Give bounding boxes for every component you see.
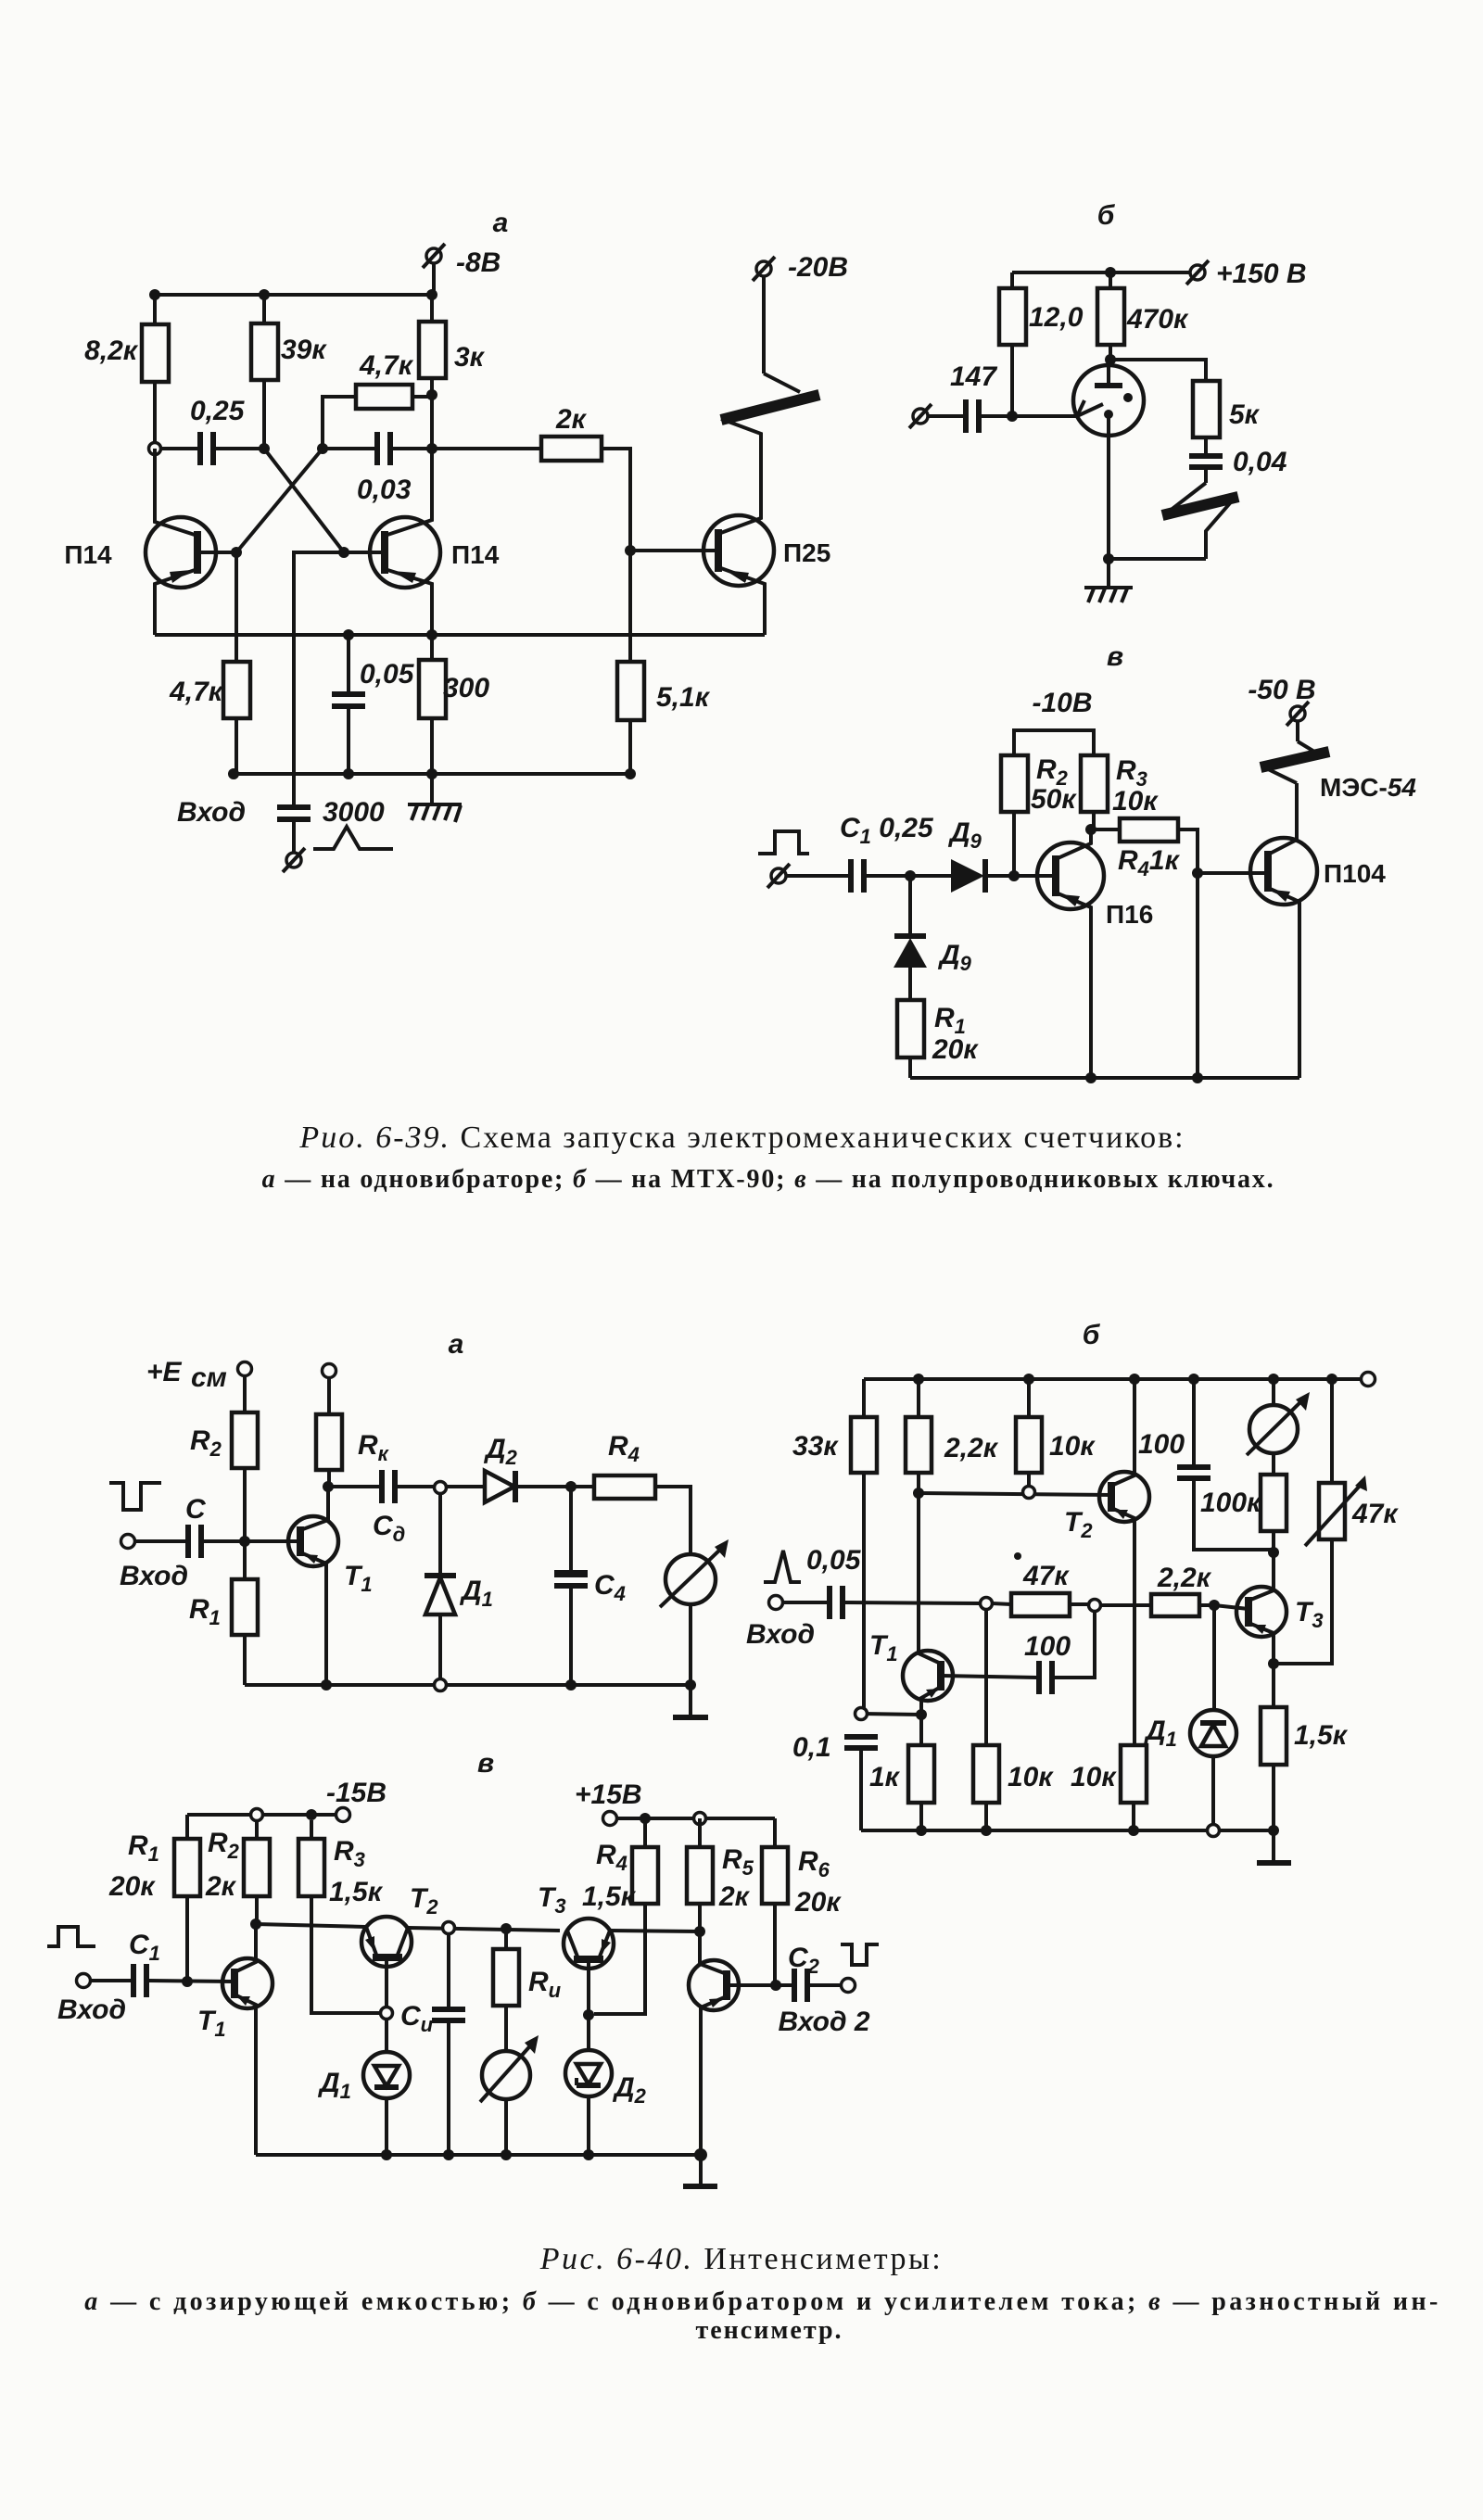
- svg-text:Т2: Т2: [410, 1883, 438, 1918]
- input terminal: [909, 404, 932, 428]
- counter bolt b: [1162, 469, 1238, 559]
- node open circle left: [149, 443, 161, 455]
- transistor P16: [1037, 829, 1153, 1078]
- svg-text:147: 147: [950, 361, 997, 392]
- svg-text:R1: R1: [934, 1003, 966, 1038]
- resistor Ri: [493, 1929, 562, 2051]
- capacitor 0,25: [190, 396, 264, 465]
- resistor 4,7k vertical: [169, 552, 250, 774]
- terminal +15V: [575, 1779, 642, 1826]
- wire base T2: [919, 1493, 1111, 1495]
- input terminal: [121, 1535, 187, 1549]
- svg-text:1,5к: 1,5к: [329, 1877, 384, 1907]
- transistor P104: [1250, 783, 1386, 1078]
- svg-text:R2: R2: [208, 1828, 240, 1863]
- junction node R5/output collector: [694, 1926, 705, 1937]
- node 2k base P25: [625, 545, 636, 556]
- junction dots rail b: [916, 1825, 927, 1836]
- junction node R2/T1 collector: [250, 1918, 261, 1930]
- svg-text:0,1: 0,1: [792, 1732, 831, 1763]
- ground v: [683, 2155, 717, 2186]
- svg-text:Т3: Т3: [538, 1882, 566, 1918]
- svg-text:4,7к: 4,7к: [169, 677, 224, 707]
- terminal -15V: [326, 1778, 387, 1822]
- resistor 2,2k horizontal: [1100, 1563, 1214, 1616]
- base wire T1 to cap 100: [941, 1676, 1037, 1678]
- svg-text:Рио. 6-39. Схема запуска элект: Рио. 6-39. Схема запуска электромеханиче…: [298, 1121, 1185, 1155]
- svg-text:Т2: Т2: [1064, 1507, 1093, 1542]
- junction dots emitter rail: [343, 629, 354, 640]
- capacitor 100 vert: [1138, 1379, 1274, 1550]
- cross wire left base to right: [264, 449, 344, 552]
- junction dot 470k top: [1105, 267, 1116, 278]
- input pulse symbol: [758, 831, 809, 854]
- capacitor Cd: [373, 1470, 435, 1546]
- node 0,1 cap top: [856, 1708, 868, 1720]
- svg-text:100к: 100к: [1200, 1488, 1262, 1518]
- capacitor C: [185, 1494, 300, 1558]
- diode D1 circle: [1143, 1605, 1236, 1830]
- ground hatched tube: [1084, 559, 1133, 602]
- svg-text:Вход: Вход: [57, 1994, 126, 2025]
- svg-text:б: б: [1097, 200, 1116, 231]
- wire to T3 base: [1214, 1605, 1249, 1609]
- capacitor 3000: [277, 797, 385, 852]
- terminal -8V: [423, 244, 501, 278]
- junction dot cathode: [1103, 553, 1114, 564]
- junction node T3 base/R4/D2: [583, 2009, 594, 2020]
- svg-text:см: см: [191, 1362, 227, 1393]
- junction dots rail v: [1085, 1072, 1096, 1083]
- svg-text:П104: П104: [1324, 859, 1386, 888]
- svg-text:1,5к: 1,5к: [1294, 1720, 1349, 1751]
- transistor P14 right: [338, 449, 500, 635]
- terminal Rk top: [323, 1364, 336, 1415]
- svg-text:П16: П16: [1106, 900, 1153, 929]
- wire cross-coupling row: [160, 447, 197, 450]
- svg-text:R3: R3: [334, 1836, 365, 1871]
- diode D2 circle: [565, 2015, 647, 2155]
- transistor T1: [288, 1486, 373, 1685]
- rheostat 47k: [1274, 1379, 1399, 1664]
- junction node R1/base: [182, 1976, 193, 1987]
- svg-text:Вход: Вход: [746, 1619, 815, 1650]
- junction node D9/R2/base: [1008, 870, 1020, 881]
- resistor 33k: [792, 1379, 877, 1714]
- svg-text:Сд: Сд: [373, 1511, 405, 1546]
- junction node R2/base: [239, 1536, 250, 1547]
- svg-text:33к: 33к: [792, 1431, 839, 1462]
- svg-text:Т3: Т3: [1295, 1597, 1324, 1632]
- svg-text:2к: 2к: [205, 1871, 237, 1902]
- node open 47k left: [981, 1598, 993, 1610]
- resistor 39k: [251, 295, 327, 449]
- meter v: [480, 2035, 539, 2155]
- bottom rail: [245, 1683, 691, 1687]
- bottom rail v: [256, 2153, 701, 2157]
- resistor R3 1,5k: [298, 1820, 384, 2013]
- wire base-right down to input cap: [294, 552, 344, 806]
- wire T2 base to D1: [385, 2019, 388, 2052]
- svg-text:Рис. 6-40. Интенсиметры:: Рис. 6-40. Интенсиметры:: [539, 2242, 944, 2276]
- svg-text:10к: 10к: [1049, 1431, 1096, 1462]
- resistor R2 50k: [1001, 754, 1077, 876]
- node dots: [259, 443, 270, 454]
- junction dots top rail b: [913, 1374, 924, 1385]
- svg-text:4,7к: 4,7к: [359, 350, 414, 381]
- svg-text:Д1: Д1: [459, 1576, 493, 1611]
- svg-text:Rи: Rи: [528, 1967, 562, 2002]
- resistor 100k: [1200, 1475, 1287, 1552]
- transistor P25: [703, 436, 830, 635]
- node Si cap tap: [443, 1922, 455, 1934]
- wire T3 emitter to R5 node: [610, 1931, 700, 1931]
- svg-text:100: 100: [1138, 1429, 1185, 1460]
- svg-text:50к: 50к: [1031, 784, 1077, 815]
- transistor T2 v rotated: [361, 1883, 438, 2008]
- wire anode node to 5k: [1110, 360, 1206, 381]
- emitter node T1: [916, 1709, 927, 1720]
- svg-text:Rк: Rк: [358, 1430, 390, 1465]
- counter bolt -20V: [721, 252, 848, 436]
- top rail right: [616, 1817, 775, 1820]
- meter a: [660, 1539, 729, 1685]
- resistor 12,0: [999, 272, 1084, 422]
- svg-text:П14: П14: [64, 540, 112, 569]
- wire node down to 5,1k: [628, 551, 632, 662]
- svg-text:R2: R2: [190, 1425, 222, 1461]
- capacitor C1 v: [129, 1930, 234, 1997]
- svg-text:8,2к: 8,2к: [84, 336, 139, 366]
- node Si open: [381, 2007, 393, 2020]
- svg-text:470к: 470к: [1126, 304, 1189, 335]
- resistor 8,2k: [84, 295, 169, 449]
- node collector: [1085, 824, 1096, 835]
- collector wire row: [256, 1924, 366, 1927]
- resistor Rk: [316, 1414, 390, 1487]
- capacitor 0,1: [792, 1732, 878, 1830]
- capacitor Si: [432, 1933, 465, 2155]
- svg-text:тенсиметр.: тенсиметр.: [695, 2316, 843, 2345]
- svg-text:С: С: [185, 1494, 207, 1525]
- svg-text:10к: 10к: [1008, 1762, 1054, 1792]
- svg-text:0,25: 0,25: [190, 396, 246, 426]
- pulse symbol triangle: [313, 827, 393, 849]
- diode D9 horizontal: [947, 817, 1056, 893]
- svg-text:1,5к: 1,5к: [582, 1881, 637, 1912]
- svg-text:12,0: 12,0: [1029, 302, 1084, 333]
- resistor 5,1k: [617, 662, 711, 774]
- bottom rail: [234, 772, 630, 776]
- svg-text:С1 0,25: С1 0,25: [840, 813, 934, 848]
- svg-text:Д2: Д2: [483, 1434, 518, 1469]
- resistor 470k: [1097, 272, 1189, 365]
- svg-text:-50 В: -50 В: [1248, 675, 1315, 705]
- bracket R2 R3 top: [1014, 730, 1094, 755]
- svg-text:47к: 47к: [1022, 1561, 1070, 1591]
- ground hatched: [408, 804, 462, 822]
- transistor P14 left: [64, 449, 242, 635]
- svg-text:R4: R4: [608, 1431, 640, 1466]
- svg-text:R5: R5: [722, 1844, 754, 1880]
- transistor T1: [869, 1493, 953, 1715]
- cathode bottom wire: [1109, 557, 1206, 561]
- svg-text:а: а: [493, 208, 509, 238]
- svg-text:20к: 20к: [794, 1887, 842, 1918]
- wire node to P25 base: [630, 549, 718, 552]
- svg-text:0,04: 0,04: [1233, 447, 1287, 477]
- svg-text:5к: 5к: [1229, 399, 1261, 430]
- svg-text:10к: 10к: [1071, 1762, 1117, 1792]
- cross wire right to left base: [236, 449, 323, 552]
- output transistor: [689, 1931, 739, 2155]
- svg-text:R1: R1: [128, 1830, 159, 1866]
- wire terminal to rail: [432, 263, 436, 295]
- resistor 300: [419, 635, 489, 803]
- node open: [435, 1482, 447, 1494]
- bottom rail b: [861, 1829, 1274, 1832]
- resistor 5k: [1193, 381, 1261, 454]
- svg-text:-15В: -15В: [326, 1778, 387, 1808]
- top rail: [155, 293, 434, 297]
- capacitor 0,04: [1189, 447, 1287, 477]
- wire emitter to 0,1 cap: [861, 1714, 921, 1715]
- svg-text:б: б: [1083, 1320, 1101, 1350]
- capacitor C2: [788, 1943, 842, 2002]
- svg-text:Си: Си: [400, 2001, 434, 2036]
- resistor R4 1,5k v: [582, 1818, 658, 2014]
- svg-text:в: в: [477, 1748, 494, 1779]
- resistor R2: [190, 1412, 258, 1541]
- svg-text:3к: 3к: [454, 342, 486, 373]
- diode D1 circle v: [317, 2052, 410, 2155]
- emitter rail: [155, 633, 765, 637]
- svg-text:100: 100: [1024, 1631, 1071, 1662]
- junction nodes one-shot base wire: [913, 1488, 924, 1499]
- junction node C1/D9: [905, 870, 916, 881]
- svg-text:R41к: R41к: [1118, 845, 1181, 880]
- resistor R4 1k horizontal: [1091, 818, 1198, 1078]
- resistor R1 20k: [108, 1815, 200, 1982]
- svg-text:а — на одновибраторе; б — на М: а — на одновибраторе; б — на МТХ-90; в —…: [262, 1165, 1275, 1194]
- ground b: [1257, 1830, 1291, 1863]
- capacitor C1 0,25: [840, 813, 951, 893]
- resistor 1,5k: [1261, 1664, 1349, 1830]
- svg-text:а — с дозирующей емкостью; б —: а — с дозирующей емкостью; б — с одновиб…: [84, 2287, 1440, 2316]
- main wire through: [408, 1928, 560, 1931]
- transistor T1 v: [197, 1924, 273, 2155]
- transistor T2: [1064, 1379, 1149, 1745]
- junction nodes -15V rail: [251, 1809, 263, 1821]
- svg-text:П14: П14: [451, 540, 500, 569]
- svg-text:а: а: [449, 1329, 464, 1360]
- base wire to C2: [727, 1983, 792, 1987]
- resistor 10k vert 3: [1071, 1745, 1147, 1830]
- input pulse: [764, 1551, 801, 1582]
- svg-text:1к: 1к: [869, 1762, 901, 1792]
- svg-text:Вход 2: Вход 2: [778, 2007, 869, 2037]
- svg-text:-10В: -10В: [1032, 688, 1092, 718]
- svg-text:Т1: Т1: [869, 1630, 898, 1665]
- svg-text:39к: 39к: [281, 335, 327, 365]
- resistor R1 20k: [897, 1000, 979, 1078]
- resistor R4 horizontal: [571, 1431, 691, 1554]
- tube MTX-90: [1073, 360, 1144, 559]
- meter b: [1247, 1379, 1310, 1475]
- junction node R4/P104 base: [1192, 867, 1203, 879]
- resistor R1: [189, 1541, 258, 1685]
- svg-text:-8В: -8В: [456, 247, 501, 278]
- svg-text:2,2к: 2,2к: [944, 1433, 999, 1463]
- diode D9 vertical: [894, 876, 972, 1000]
- bottom rail v: [910, 1076, 1299, 1080]
- resistor 47k horizontal: [992, 1552, 1089, 1616]
- svg-text:П25: П25: [783, 538, 830, 567]
- junction node 100k/T3 collector: [1268, 1547, 1279, 1558]
- input terminal: [283, 848, 305, 872]
- ground a: [673, 1685, 708, 1717]
- svg-text:2к: 2к: [555, 404, 588, 435]
- capacitor 0,05: [332, 635, 415, 774]
- svg-text:Т1: Т1: [197, 2006, 226, 2041]
- svg-text:в: в: [1107, 641, 1123, 672]
- svg-text:+Е: +Е: [146, 1357, 183, 1387]
- svg-text:С4: С4: [594, 1570, 626, 1605]
- svg-text:Вход: Вход: [120, 1561, 188, 1591]
- capacitor 0,05 input: [830, 1586, 981, 1619]
- pulse out v: [841, 1944, 879, 1965]
- transistor T3 v rotated: [538, 1882, 614, 2013]
- capacitor C4: [554, 1487, 626, 1685]
- resistor R5 2k: [687, 1818, 754, 1931]
- junction node R6/base/C2: [770, 1980, 781, 1991]
- wire to tube grid: [1012, 414, 1077, 418]
- resistor 4,7k horizontal: [323, 350, 437, 449]
- svg-text:0,03: 0,03: [357, 475, 412, 505]
- input pulse symbol: [109, 1483, 161, 1510]
- svg-text:R4: R4: [596, 1840, 627, 1875]
- input terminal v: [77, 1974, 133, 1988]
- input pulse v: [47, 1927, 95, 1946]
- svg-text:+15В: +15В: [575, 1779, 642, 1810]
- junction node Ri top: [501, 1923, 512, 1934]
- input terminal: [767, 864, 790, 888]
- svg-text:47к: 47к: [1351, 1499, 1399, 1529]
- resistor R2 2k: [205, 1820, 270, 1924]
- terminal +150V: [1186, 259, 1307, 289]
- svg-text:R6: R6: [798, 1846, 830, 1881]
- diode D2: [483, 1434, 566, 1502]
- counter bolt MES-54: [1248, 675, 1416, 802]
- svg-text:МЭС-54: МЭС-54: [1320, 773, 1416, 802]
- junction node D2/C4/R4: [565, 1481, 577, 1492]
- svg-text:5,1к: 5,1к: [656, 682, 711, 713]
- resistor R6 20k: [762, 1818, 842, 1985]
- svg-text:Д9: Д9: [947, 817, 982, 853]
- top rail left: [187, 1813, 336, 1817]
- svg-text:Вход: Вход: [177, 797, 246, 828]
- svg-text:Д1: Д1: [1143, 1716, 1177, 1751]
- svg-text:Д9: Д9: [937, 940, 972, 975]
- svg-text:2,2к: 2,2к: [1157, 1563, 1212, 1593]
- svg-text:3000: 3000: [323, 797, 385, 828]
- diode D1: [425, 1493, 493, 1685]
- resistor 10k vert 2: [973, 1609, 1054, 1830]
- junction nodes +15V rail: [640, 1813, 651, 1824]
- svg-text:2к: 2к: [718, 1881, 751, 1912]
- input terminal: [769, 1596, 829, 1610]
- svg-text:R1: R1: [189, 1594, 221, 1629]
- svg-text:0,05: 0,05: [360, 659, 415, 690]
- node dots top rail: [149, 289, 160, 300]
- junction node T3 emitter: [1268, 1658, 1279, 1669]
- junction dots bottom rail: [228, 768, 239, 779]
- svg-text:-20В: -20В: [788, 252, 848, 283]
- svg-text:Д1: Д1: [317, 2068, 351, 2103]
- junction node Rk/collector: [323, 1481, 334, 1492]
- top wire: [328, 1485, 380, 1488]
- wire input: [786, 874, 849, 878]
- svg-text:20к: 20к: [108, 1871, 156, 1902]
- capacitor 0,03: [323, 432, 432, 505]
- svg-text:Д2: Д2: [612, 2072, 647, 2108]
- svg-text:20к: 20к: [932, 1034, 979, 1065]
- top rail: [1012, 271, 1191, 274]
- svg-text:Т1: Т1: [344, 1561, 373, 1596]
- resistor R3 10k: [1081, 755, 1159, 829]
- junction node 2,2k/T3 base/D1: [1209, 1600, 1220, 1611]
- resistor 2,2k vert: [906, 1379, 999, 1493]
- svg-text:С1: С1: [129, 1930, 160, 1965]
- svg-text:10к: 10к: [1112, 786, 1159, 817]
- capacitor 147: [928, 361, 1012, 433]
- svg-text:300: 300: [443, 673, 489, 703]
- resistor 10k vert 1: [1016, 1379, 1096, 1487]
- resistor 2k: [432, 404, 630, 551]
- junction dots rail v40: [381, 2149, 392, 2160]
- terminal +Esm: [146, 1357, 252, 1412]
- svg-text:С2: С2: [788, 1943, 820, 1978]
- svg-text:+150 В: +150 В: [1216, 259, 1307, 289]
- junction node 0,03/2k/collector: [426, 443, 437, 454]
- svg-text:0,05: 0,05: [806, 1545, 862, 1576]
- resistor 3k: [419, 295, 486, 449]
- resistor 1k: [869, 1715, 934, 1830]
- capacitor 100 horizontal: [1024, 1611, 1095, 1694]
- top rail: [864, 1377, 1362, 1381]
- transistor T3: [1236, 1552, 1324, 1664]
- wire to P104 base: [1198, 871, 1268, 875]
